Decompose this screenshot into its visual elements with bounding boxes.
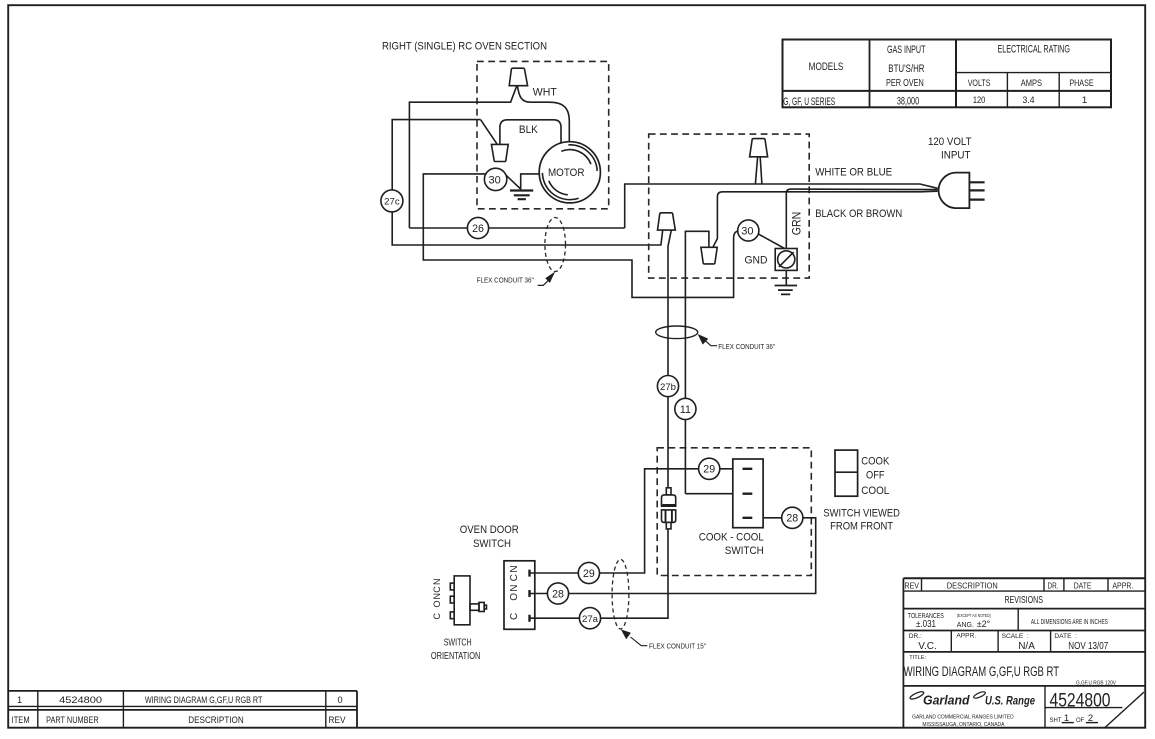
svg-text:COOL: COOL xyxy=(861,485,889,497)
svg-text:Garland: Garland xyxy=(923,694,970,708)
wire 29: door switch NC to cook-cool xyxy=(530,469,733,573)
svg-text:FLEX CONDUIT 15": FLEX CONDUIT 15" xyxy=(649,642,706,651)
motor M1 xyxy=(539,142,600,203)
node 29 (cook-cool) xyxy=(699,458,720,479)
svg-text:DATE: DATE xyxy=(1074,581,1092,591)
U.S. Range logo xyxy=(973,691,986,700)
svg-text:GARLAND COMMERCIAL RANGES LIMI: GARLAND COMMERCIAL RANGES LIMITED xyxy=(912,715,1014,721)
parts list frame xyxy=(8,690,357,692)
svg-text:26: 26 xyxy=(472,223,484,235)
svg-text:COOK - COOL: COOK - COOL xyxy=(699,531,764,543)
flex conduit 36 leader arrow xyxy=(538,279,550,285)
wire 11 horizontal into switch xyxy=(685,493,732,495)
wire nut W2 (white to plug) xyxy=(750,139,768,157)
svg-text:SWITCH: SWITCH xyxy=(725,545,764,557)
svg-text:C: C xyxy=(432,613,442,620)
svg-text:PHASE: PHASE xyxy=(1069,78,1093,89)
power plug P1 xyxy=(939,173,970,209)
svg-text:SWITCH: SWITCH xyxy=(444,638,472,649)
flex conduit 36in ellipse (oven) xyxy=(545,218,566,272)
wire: nut B1 to motor top xyxy=(500,120,561,145)
svg-text:1: 1 xyxy=(17,695,22,705)
approval row xyxy=(950,631,952,652)
SECTION: door switch xyxy=(431,524,706,662)
ratings table frame xyxy=(783,40,1112,108)
svg-text:N/A: N/A xyxy=(1018,641,1035,652)
SECTION: title block xyxy=(903,578,1145,728)
svg-text:REV: REV xyxy=(329,715,347,725)
node 28 (door) xyxy=(547,583,568,604)
wire: circle 30 to ground screw xyxy=(758,234,784,249)
wire nut B2 (black) xyxy=(701,247,717,264)
svg-text:MOTOR: MOTOR xyxy=(548,167,585,179)
svg-text:AMPS: AMPS xyxy=(1021,78,1042,89)
pigtail of nut W2 xyxy=(755,157,762,184)
corner diagonal xyxy=(1105,692,1144,728)
SECTION: oven box xyxy=(381,41,938,298)
svg-text:G,GF,U RGB 120V: G,GF,U RGB 120V xyxy=(1076,681,1116,687)
svg-text:V.C.: V.C. xyxy=(918,641,937,652)
svg-text:COOK: COOK xyxy=(861,455,890,467)
svg-text:3.4: 3.4 xyxy=(1023,95,1036,106)
wire WHT: nut W1 down to bus and left riser xyxy=(409,86,516,228)
svg-text:GND: GND xyxy=(745,254,768,266)
svg-text:27a: 27a xyxy=(582,614,599,625)
cook-cool switch terminals xyxy=(743,469,753,518)
svg-text:PER OVEN: PER OVEN xyxy=(886,78,924,89)
Garland logo xyxy=(909,690,924,700)
svg-text:27c: 27c xyxy=(384,197,400,208)
svg-text:N: N xyxy=(432,579,442,586)
wire BLACK from plug to nut B2 xyxy=(713,191,938,247)
svg-text:ANG.: ANG. xyxy=(957,622,974,629)
svg-text:30: 30 xyxy=(741,225,753,237)
ground at motor xyxy=(510,191,533,200)
svg-text:APPR.: APPR. xyxy=(1112,581,1133,591)
node 29 (door) xyxy=(578,562,599,583)
svg-text:DR.: DR. xyxy=(1048,580,1059,590)
svg-text:DESCRIPTION: DESCRIPTION xyxy=(188,715,244,725)
inline connector J1 top cap xyxy=(666,488,671,495)
logo cell divider xyxy=(1044,686,1046,728)
svg-text:120: 120 xyxy=(973,95,986,106)
node 27c xyxy=(381,190,403,212)
svg-text:C: C xyxy=(432,586,442,593)
node 11 xyxy=(675,398,696,419)
svg-text:38,000: 38,000 xyxy=(897,95,919,107)
SECTION: bottom table xyxy=(8,691,357,728)
svg-text:28: 28 xyxy=(552,588,564,600)
svg-text:0: 0 xyxy=(337,695,342,705)
svg-text:29: 29 xyxy=(583,568,595,580)
svg-text:BLACK OR BROWN: BLACK OR BROWN xyxy=(815,208,902,220)
cook-cool switch S1 body xyxy=(733,459,763,528)
dashed enclosure: cook-cool switch xyxy=(657,448,811,576)
wire nut W1 (WHT) xyxy=(509,68,527,86)
svg-text:WIRING DIAGRAM G,GF,U RGB RT: WIRING DIAGRAM G,GF,U RGB RT xyxy=(904,664,1060,680)
svg-text:WHITE OR BLUE: WHITE OR BLUE xyxy=(815,166,892,178)
svg-text:N: N xyxy=(509,584,520,591)
wire 11: nut B2 gamma run down xyxy=(685,231,709,493)
node 27b xyxy=(657,376,678,397)
wire nut W3 pigtail and nut xyxy=(668,230,671,488)
svg-text:PART NUMBER: PART NUMBER xyxy=(46,715,99,725)
svg-text:FROM FRONT: FROM FRONT xyxy=(830,520,893,532)
svg-text:U.S. Range: U.S. Range xyxy=(985,694,1035,708)
wire 26 horizontal run xyxy=(409,227,624,229)
svg-text:OF: OF xyxy=(1076,718,1085,724)
flex conduit 36in ellipse (middle) xyxy=(656,326,698,339)
ground screw terminal xyxy=(775,249,797,271)
svg-text:BLK: BLK xyxy=(519,124,539,136)
svg-text:4524800: 4524800 xyxy=(59,695,102,705)
svg-text:TITLE:: TITLE: xyxy=(909,655,926,661)
svg-text:OVEN DOOR: OVEN DOOR xyxy=(460,524,519,536)
inline connector J1 lower body xyxy=(662,510,676,523)
switch orientation icon body xyxy=(454,576,470,625)
rocker switch legend xyxy=(835,450,858,496)
svg-text:SHT: SHT xyxy=(1050,718,1062,724)
wire BLK diagonal into nut B1 xyxy=(481,120,498,145)
door switch S2 body xyxy=(504,561,535,630)
svg-text:ALL DIMENSIONS ARE IN INCHES: ALL DIMENSIONS ARE IN INCHES xyxy=(1031,619,1108,626)
svg-text:OFF: OFF xyxy=(866,470,885,482)
SECTION: middle xyxy=(530,326,901,618)
plug prongs xyxy=(969,182,984,199)
svg-text:MODELS: MODELS xyxy=(809,61,844,73)
wire: circle 30 to motor ground junction xyxy=(505,174,539,189)
svg-text:ELECTRICAL RATING: ELECTRICAL RATING xyxy=(997,43,1070,55)
svg-text:N: N xyxy=(509,565,520,572)
wire 27a: connector down to door switch C xyxy=(530,529,669,618)
svg-text:INPUT: INPUT xyxy=(941,149,971,161)
svg-text:11: 11 xyxy=(680,404,691,416)
svg-text:WIRING DIAGRAM G,GF,U RGB RT: WIRING DIAGRAM G,GF,U RGB RT xyxy=(145,695,263,705)
svg-text:27b: 27b xyxy=(660,382,676,393)
svg-text:1: 1 xyxy=(1082,95,1087,106)
svg-text:REVISIONS: REVISIONS xyxy=(1004,595,1043,606)
node 28 (cook-cool) xyxy=(782,507,803,528)
wire 28: cook-cool to door switch NO xyxy=(530,518,816,594)
svg-text:GRN: GRN xyxy=(791,212,803,236)
wire: nut W1 to motor top xyxy=(517,86,569,142)
svg-text:DR.:: DR.: xyxy=(909,633,922,640)
tolerances row xyxy=(1017,609,1019,631)
dashed enclosure: 120V input section xyxy=(649,134,810,278)
SECTION: ratings table xyxy=(783,40,1112,108)
svg-text:120 VOLT: 120 VOLT xyxy=(928,136,972,148)
wire 26 riser to input box xyxy=(625,184,938,228)
svg-text:FLEX CONDUIT 36": FLEX CONDUIT 36" xyxy=(477,276,534,285)
node 27a xyxy=(579,608,600,629)
svg-text:O: O xyxy=(509,593,520,601)
svg-text:ITEM: ITEM xyxy=(12,715,30,725)
svg-text:DATE :: DATE : xyxy=(1054,633,1077,640)
wire 30 net: ground bus between sections xyxy=(423,174,738,298)
svg-text:WHT: WHT xyxy=(533,87,557,99)
orientation icon plunger xyxy=(470,604,479,610)
wire nut B1 (BLK) xyxy=(491,144,508,161)
wire BLK: left bus down to nut W3 xyxy=(392,120,663,245)
node 30 (input) xyxy=(738,220,759,241)
svg-text:SWITCH: SWITCH xyxy=(473,538,511,550)
svg-text:SCALE :: SCALE : xyxy=(1002,633,1029,640)
dashed enclosure: RC oven section xyxy=(477,61,609,208)
svg-text:RIGHT (SINGLE) RC OVEN SECTION: RIGHT (SINGLE) RC OVEN SECTION xyxy=(382,41,547,53)
svg-text:±.031: ±.031 xyxy=(916,619,936,630)
svg-text:MISSISSAUGA, ONTARIO, CANADA: MISSISSAUGA, ONTARIO, CANADA xyxy=(922,722,1004,728)
node 26 xyxy=(467,217,488,238)
title block frame xyxy=(902,578,904,728)
svg-text:FLEX CONDUIT 36": FLEX CONDUIT 36" xyxy=(718,342,775,351)
svg-text:SWITCH VIEWED: SWITCH VIEWED xyxy=(823,507,900,519)
svg-text:C: C xyxy=(509,574,520,581)
inline connector J1 upper body xyxy=(662,495,676,506)
orientation icon tabs xyxy=(450,583,454,590)
svg-text:G, GF, U SERIES: G, GF, U SERIES xyxy=(783,96,835,108)
flex conduit 36 leader arrow (middle) xyxy=(701,337,717,346)
svg-text:REV: REV xyxy=(905,580,920,590)
door switch terminal ticks xyxy=(528,570,530,622)
svg-text:APPR.: APPR. xyxy=(956,632,976,639)
svg-text:30: 30 xyxy=(488,174,500,186)
svg-text:29: 29 xyxy=(703,464,715,476)
wire GRN from plug to gnd screw xyxy=(786,189,937,248)
svg-text:NOV 13/07: NOV 13/07 xyxy=(1068,641,1108,652)
svg-text:±2°: ±2° xyxy=(977,619,991,629)
svg-text:N: N xyxy=(432,593,442,600)
svg-text:C: C xyxy=(509,613,520,620)
svg-text:ORIENTATION: ORIENTATION xyxy=(431,651,481,662)
SECTION: input box xyxy=(649,134,985,494)
svg-text:DESCRIPTION: DESCRIPTION xyxy=(947,580,998,590)
ground below screw xyxy=(785,270,787,285)
inline connector J1 lower stem xyxy=(666,522,671,529)
svg-text:28: 28 xyxy=(786,513,798,525)
svg-text:BTU'S/HR: BTU'S/HR xyxy=(888,63,924,75)
svg-text:O: O xyxy=(432,600,442,607)
node 30 (oven) xyxy=(484,168,506,190)
flex conduit 15 leader arrow xyxy=(631,637,648,646)
svg-text:GAS INPUT: GAS INPUT xyxy=(887,44,926,56)
svg-text:VOLTS: VOLTS xyxy=(968,78,991,89)
revisions header row xyxy=(921,578,923,591)
flex conduit 15in ellipse xyxy=(612,559,629,629)
